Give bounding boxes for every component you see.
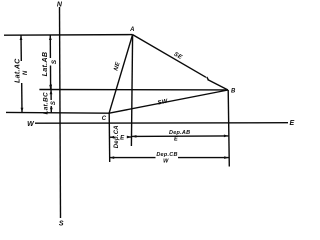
svg-text:E: E [290,120,295,127]
svg-text:E: E [120,136,125,142]
svg-text:W: W [27,121,35,128]
svg-text:C: C [102,116,107,122]
svg-text:Lat.AB: Lat.AB [40,52,49,77]
svg-text:N: N [23,70,29,75]
svg-text:N: N [57,2,63,9]
svg-text:E: E [174,137,178,143]
svg-text:B: B [231,89,236,95]
svg-text:Dep.CA: Dep.CA [114,125,120,148]
svg-text:W: W [163,159,169,165]
svg-text:Lat.AC: Lat.AC [13,58,22,83]
svg-text:A: A [129,27,135,33]
svg-text:S: S [59,221,64,228]
svg-text:SE: SE [173,52,184,62]
svg-text:S: S [51,101,57,105]
svg-text:Lat.BC: Lat.BC [42,92,49,115]
svg-text:Dep.AB: Dep.AB [169,130,190,136]
svg-text:Dep.CB: Dep.CB [156,152,177,158]
svg-text:SW: SW [157,99,169,107]
svg-text:S: S [51,59,58,64]
svg-text:NE: NE [113,61,122,72]
